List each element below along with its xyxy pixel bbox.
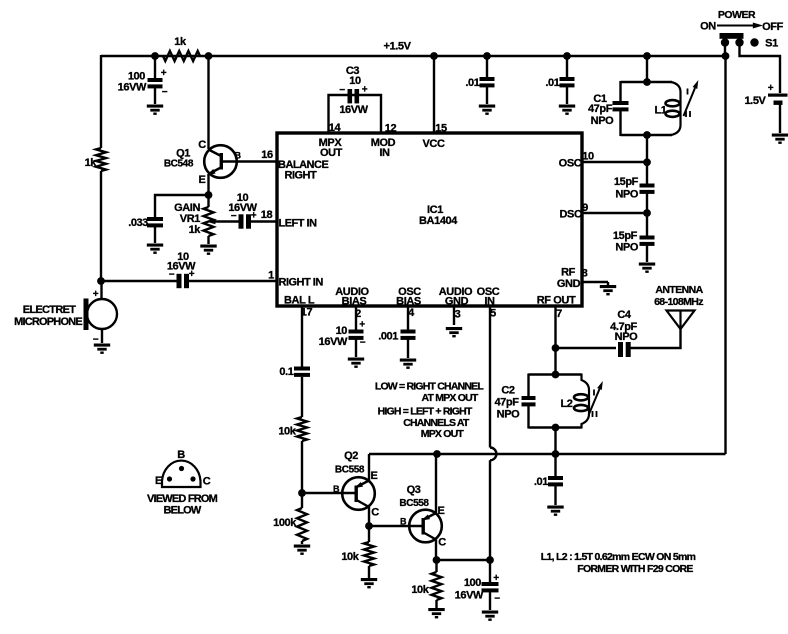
- svg-text:BIAS: BIAS: [396, 296, 421, 308]
- wire C3 loop: [329, 95, 382, 133]
- label pin8 RF GND: [557, 267, 588, 291]
- wire VR1 to ground: [207, 236, 209, 244]
- svg-text:10: 10: [582, 151, 594, 163]
- svg-text:E: E: [199, 174, 206, 186]
- svg-text:16VW: 16VW: [319, 336, 348, 348]
- svg-text:C4: C4: [617, 309, 632, 321]
- svg-text:15: 15: [435, 123, 447, 135]
- ground below .033: [147, 244, 163, 254]
- svg-text:.01: .01: [545, 77, 559, 89]
- wire .01 bottom stem: [554, 454, 556, 476]
- ground below microphone: [94, 344, 110, 354]
- svg-text:NPO: NPO: [615, 242, 638, 254]
- note L1 L2 former: [541, 551, 696, 575]
- svg-text:0.1: 0.1: [279, 366, 293, 378]
- ground pin8: [600, 285, 616, 295]
- resistor 10k q3: [411, 572, 441, 600]
- svg-text:AT MPX OUT: AT MPX OUT: [422, 392, 479, 404]
- wire Q2 base: [302, 492, 355, 494]
- svg-text:GND: GND: [445, 296, 469, 308]
- svg-text:BELOW: BELOW: [164, 505, 202, 517]
- adjustable core arrow L2: [589, 380, 605, 417]
- svg-text:+: +: [189, 269, 195, 280]
- svg-text:47pF: 47pF: [588, 103, 613, 115]
- svg-text:E: E: [155, 475, 162, 487]
- wire pin5 OSC IN upper: [489, 306, 491, 448]
- node junction tank2 top: [552, 371, 560, 379]
- capacitor 15pF NPO lower: [613, 230, 655, 254]
- wire tank1 drop: [646, 56, 648, 82]
- TO-92 package viewed from below: [147, 449, 218, 517]
- svg-text:LOW = RIGHT CHANNEL: LOW = RIGHT CHANNEL: [375, 381, 485, 393]
- svg-text:ANTENNA: ANTENNA: [655, 284, 703, 296]
- svg-text:100: 100: [464, 577, 481, 589]
- svg-text:VCC: VCC: [422, 138, 444, 150]
- ground below 100k: [294, 545, 310, 555]
- wire 100uF top stem: [154, 56, 156, 78]
- wire left rail lower: [100, 171, 102, 282]
- wire pin5 jump over emitter bus: [490, 448, 496, 461]
- svg-text:1k: 1k: [174, 36, 187, 48]
- wire Q3 10k: [435, 560, 437, 572]
- wire tank1 left upper: [619, 81, 621, 101]
- wire .01 B gnd stem: [566, 87, 568, 105]
- svg-text:C2: C2: [501, 385, 515, 397]
- label pin2 AUDIO BIAS: [335, 286, 369, 320]
- capacitor 10uF 16VW left-in: [228, 192, 257, 229]
- svg-text:14: 14: [329, 122, 342, 134]
- label pin18 LEFT IN: [261, 209, 317, 230]
- svg-text:BA1404: BA1404: [419, 215, 458, 227]
- wire Q2 collector to Q3 base: [369, 525, 422, 527]
- svg-text:FORMER WITH F29 CORE: FORMER WITH F29 CORE: [577, 563, 693, 575]
- svg-text:BC558: BC558: [399, 498, 429, 509]
- wire right-in right segment: [188, 280, 277, 282]
- svg-text:GND: GND: [557, 278, 581, 290]
- wire pin10 OSC: [582, 161, 647, 163]
- wire 15pF lower to ground: [646, 246, 648, 263]
- label pin9 DSC: [559, 202, 588, 221]
- label pin1 RIGHT IN: [268, 270, 323, 289]
- ground below VR1: [200, 245, 216, 255]
- svg-text:IN: IN: [484, 296, 495, 308]
- wire 0.1 to 10k: [301, 377, 303, 417]
- wire tank2 to bottom wire: [554, 428, 556, 455]
- svg-text:.01: .01: [534, 476, 548, 488]
- svg-text:OFF: OFF: [762, 21, 783, 33]
- wire VCC: [433, 56, 435, 133]
- resistor R 1k left rail: [85, 148, 106, 171]
- capacitor .01 A: [465, 77, 494, 89]
- svg-text:RIGHT IN: RIGHT IN: [279, 277, 324, 289]
- svg-text:−: −: [231, 211, 237, 222]
- note MPX OUT levels: [375, 381, 485, 441]
- switch S1 ON-OFF arrow: [700, 21, 783, 34]
- svg-text:+: +: [251, 211, 257, 222]
- ground below 100uF bottom: [482, 611, 498, 621]
- label +1.5V: [383, 41, 411, 53]
- node junction pin5 bottom: [486, 556, 494, 564]
- capacitor 0.1: [279, 366, 310, 378]
- svg-text:16VW: 16VW: [339, 104, 368, 116]
- IC IC1 BA1404 box: [277, 133, 582, 306]
- svg-text:Q2: Q2: [344, 450, 358, 462]
- wire left rail upper: [100, 55, 102, 148]
- svg-text:+: +: [161, 68, 167, 79]
- transistor Q3 BC558: [399, 484, 446, 549]
- wire pin4 cap to gnd: [407, 339, 409, 358]
- ground below pin4 cap: [400, 359, 416, 369]
- svg-text:BC558: BC558: [335, 465, 365, 476]
- svg-text:B: B: [400, 517, 407, 527]
- svg-text:1: 1: [268, 270, 274, 282]
- capacitor 15pF NPO upper: [614, 176, 655, 201]
- svg-text:B: B: [177, 449, 185, 461]
- node junction top rail A: [151, 52, 159, 60]
- svg-text:15pF: 15pF: [614, 176, 639, 188]
- svg-text:12: 12: [385, 123, 397, 135]
- svg-text:B: B: [333, 484, 340, 494]
- svg-text:OSC: OSC: [559, 158, 582, 170]
- node junction pin10: [643, 158, 651, 166]
- switch S1 bar: [720, 33, 744, 39]
- wire Q1 collector: [207, 56, 209, 149]
- wire switch left contact: [724, 44, 726, 56]
- resistor 100k: [273, 508, 307, 541]
- ground below 100uF: [147, 105, 163, 115]
- svg-text:10k: 10k: [411, 584, 429, 596]
- svg-text:+: +: [768, 83, 774, 94]
- electret microphone: [14, 289, 117, 346]
- wire pin4 down: [407, 306, 409, 330]
- svg-text:C: C: [203, 476, 211, 488]
- wiper arrow VR1: [206, 219, 239, 224]
- label pin7 RF OUT: [537, 295, 576, 321]
- svg-text:RF: RF: [561, 267, 576, 279]
- ground below .01 bottom: [547, 506, 563, 516]
- svg-text:16: 16: [261, 149, 273, 161]
- wire pin5 OSC IN lower: [489, 460, 491, 560]
- svg-text:C: C: [371, 507, 379, 519]
- svg-text:Q3: Q3: [407, 484, 421, 496]
- wire .01 A stem: [486, 56, 488, 77]
- label pin12 MOD IN: [371, 123, 397, 160]
- ground below pin2 cap: [348, 358, 364, 368]
- label pin15 VCC: [422, 123, 447, 151]
- wire +1.5V top rail: [101, 55, 726, 57]
- svg-text:L1: L1: [654, 105, 666, 117]
- label pin3 AUDIO GND: [439, 286, 473, 321]
- inductor L2: [560, 374, 589, 429]
- svg-text:1k: 1k: [189, 224, 202, 236]
- svg-text:16VW: 16VW: [455, 590, 484, 602]
- wire tank2 top: [529, 373, 582, 375]
- node junction Q3 collector: [433, 556, 441, 564]
- svg-text:E: E: [438, 505, 445, 517]
- svg-text:10: 10: [349, 75, 361, 87]
- wire Q1 emitter down: [207, 174, 209, 207]
- label pin10 OSC: [559, 151, 594, 170]
- switch S1 spare contact: [750, 38, 778, 50]
- wire right-in left segment: [101, 280, 177, 282]
- wire tank2 left upper: [527, 374, 529, 397]
- svg-text:NPO: NPO: [615, 189, 638, 201]
- wire pin8 stem: [607, 282, 609, 285]
- wire Q3 collector down: [435, 540, 437, 562]
- svg-text:L1, L2 : 1.5T 0.62mm ECW ON 5m: L1, L2 : 1.5T 0.62mm ECW ON 5mm: [541, 551, 696, 563]
- adjustable core arrow L1: [684, 79, 701, 117]
- svg-text:HIGH = LEFT + RIGHT: HIGH = LEFT + RIGHT: [378, 406, 473, 418]
- svg-text:ON: ON: [700, 21, 716, 33]
- svg-text:OUT: OUT: [320, 147, 343, 159]
- wire 100uF bottom stem: [154, 88, 156, 105]
- wire mic bottom: [101, 329, 103, 343]
- svg-text:NPO: NPO: [497, 409, 520, 421]
- node junction top rail B (Q1 collector): [205, 52, 213, 60]
- svg-text:BIAS: BIAS: [342, 296, 367, 308]
- svg-text:+: +: [93, 289, 99, 300]
- capacitor 100uF 16VW top-left: [118, 68, 168, 98]
- node junction tank1 top: [643, 78, 651, 86]
- transistor Q1 BC548: [164, 139, 242, 186]
- capacitor .01 B: [545, 77, 574, 89]
- node junction Q2 base: [298, 489, 306, 497]
- svg-text:BAL L: BAL L: [284, 295, 315, 307]
- capacitor .033: [128, 217, 163, 229]
- svg-text:−: −: [494, 594, 500, 605]
- ground below .01 A: [479, 105, 495, 115]
- wire .033 to ground: [154, 227, 156, 244]
- wire q3 10k to gnd: [435, 600, 437, 608]
- svg-text:NPO: NPO: [591, 115, 614, 127]
- wire Q3 emitter up: [435, 454, 437, 513]
- label pin17 BAL L: [284, 295, 315, 319]
- node junction tank1 bottom: [643, 131, 651, 139]
- capacitor C1 47pF NPO: [588, 93, 629, 127]
- svg-text:DSC: DSC: [559, 209, 581, 221]
- wire pin2 down: [355, 306, 357, 330]
- label POWER: [718, 9, 756, 21]
- wire Q2 emitter up: [368, 454, 370, 481]
- capacitor C4 4.7pF NPO: [610, 309, 638, 357]
- svg-text:1k: 1k: [85, 157, 98, 169]
- svg-text:+1.5V: +1.5V: [383, 41, 411, 53]
- node junction RF out: [552, 344, 560, 352]
- svg-text:L2: L2: [560, 398, 572, 410]
- capacitor C3 10uF 16VW: [339, 65, 368, 116]
- svg-text:+: +: [362, 85, 368, 96]
- wire pin9 DSC: [582, 212, 647, 214]
- ground below 15pF: [639, 263, 655, 273]
- node junction left rail / mic: [97, 277, 105, 285]
- resistor R 1k top: [163, 36, 200, 61]
- wire .01 A gnd stem: [486, 87, 488, 105]
- wire pin3 stub: [453, 306, 455, 325]
- svg-text:3: 3: [455, 309, 461, 321]
- svg-text:NPO: NPO: [615, 331, 638, 343]
- wire 10k to junction: [301, 441, 303, 508]
- svg-text:MICROPHONE: MICROPHONE: [14, 316, 82, 328]
- wire C4 to antenna: [628, 329, 681, 348]
- node junction pin9: [643, 209, 651, 217]
- svg-text:MPX OUT: MPX OUT: [421, 428, 465, 440]
- node junction Q2 collector: [365, 522, 373, 530]
- capacitor 10uF 16VW audio-bias: [319, 320, 366, 349]
- wire battery to ground: [779, 105, 781, 134]
- node junction Q1 emitter: [205, 191, 213, 199]
- wire tank2 bottom: [529, 426, 582, 428]
- capacitor 10uF 16VW right-in: [167, 251, 196, 288]
- svg-text:1.5V: 1.5V: [744, 95, 766, 107]
- wire switch to battery: [740, 44, 781, 93]
- wire Q1 base to pin16: [222, 160, 277, 162]
- label pin14 MPX OUT: [319, 122, 343, 159]
- wire right vertical rail: [724, 56, 726, 454]
- node junction VCC: [430, 52, 438, 60]
- ground below battery: [772, 134, 788, 144]
- label pin4 OSC BIAS: [396, 286, 421, 319]
- capacitor .01 bottom: [534, 476, 563, 488]
- wire tank2 left lower: [527, 406, 529, 429]
- ground pin3 AUDIO GND: [446, 327, 462, 337]
- wire tank1 top: [621, 81, 673, 83]
- svg-text:68-108MHz: 68-108MHz: [654, 296, 703, 308]
- label pin5 OSC IN: [477, 286, 500, 320]
- svg-text:10k: 10k: [278, 426, 296, 438]
- node junction .01 B: [563, 52, 571, 60]
- wire pin8 RF GND: [582, 281, 608, 283]
- wire mic top: [100, 281, 102, 300]
- svg-text:47pF: 47pF: [494, 397, 519, 409]
- wire 100uF bottom stem top: [489, 560, 491, 582]
- resistor 10k q2: [341, 542, 374, 566]
- wire 15pF upper to pin9: [646, 194, 648, 236]
- node junction rail right corner: [722, 52, 730, 60]
- svg-text:10k: 10k: [341, 551, 359, 563]
- svg-text:−: −: [162, 87, 168, 98]
- svg-text:100k: 100k: [273, 517, 297, 529]
- svg-text:−: −: [169, 270, 175, 281]
- wire q2 10k to gnd: [368, 566, 370, 578]
- svg-text:−: −: [339, 85, 345, 96]
- svg-text:+: +: [493, 573, 499, 584]
- wire emitter bus: [369, 453, 726, 455]
- svg-text:S1: S1: [765, 38, 778, 50]
- wire tank1 to pin10: [646, 135, 648, 184]
- wire Q2 collector down: [368, 507, 370, 527]
- svg-text:BC548: BC548: [164, 159, 194, 170]
- svg-text:.001: .001: [378, 331, 398, 343]
- svg-text:8: 8: [582, 268, 588, 280]
- transistor Q2 BC558: [333, 450, 379, 519]
- capacitor .001 osc-bias: [378, 330, 415, 343]
- antenna 68-108MHz: [654, 284, 704, 329]
- svg-text:7: 7: [556, 308, 562, 320]
- wire Q3 collector bus: [437, 559, 491, 561]
- wire 100uF bottom to gnd: [489, 592, 491, 611]
- svg-text:.033: .033: [128, 217, 148, 229]
- node junction Q3 emitter bus: [433, 450, 441, 458]
- resistor 10k bal: [278, 417, 307, 441]
- wire 10uF to pin18: [250, 220, 277, 222]
- wire .01 B stem: [566, 56, 568, 77]
- svg-text:18: 18: [261, 209, 273, 221]
- battery 1.5V: [744, 83, 787, 107]
- svg-text:ELECTRET: ELECTRET: [23, 304, 76, 316]
- ground below Q2 10k: [361, 578, 377, 588]
- wire tank1 bottom: [621, 134, 673, 136]
- svg-text:RIGHT: RIGHT: [285, 170, 318, 182]
- svg-text:IN: IN: [379, 147, 390, 159]
- svg-text:−: −: [360, 338, 366, 349]
- potentiometer VR1 GAIN 1k: [174, 202, 213, 236]
- svg-text:.01: .01: [465, 77, 479, 89]
- node junction tank1 rail: [643, 52, 651, 60]
- svg-text:POWER: POWER: [718, 9, 756, 21]
- inductor L1: [654, 82, 680, 135]
- capacitor C2 47pF NPO: [494, 385, 535, 421]
- svg-text:RF OUT: RF OUT: [537, 295, 576, 307]
- ground below .01 B: [559, 105, 575, 115]
- wire tank1 left lower: [619, 111, 621, 137]
- wire pin17 down: [301, 306, 303, 367]
- svg-text:+: +: [359, 320, 365, 331]
- node junction tank2 bottom: [552, 424, 560, 432]
- switch S1 contacts: [721, 38, 744, 46]
- wire Q2 10k: [368, 526, 370, 542]
- node junction .01 A: [483, 52, 491, 60]
- wire C4 left: [556, 347, 617, 349]
- wire pin7 RF OUT: [554, 306, 556, 375]
- svg-text:E: E: [371, 470, 378, 482]
- capacitor 100uF 16VW bottom: [455, 573, 501, 605]
- svg-text:15pF: 15pF: [613, 230, 638, 242]
- svg-text:LEFT IN: LEFT IN: [279, 218, 318, 230]
- svg-text:VIEWED FROM: VIEWED FROM: [147, 493, 218, 505]
- wire pin2 cap to gnd: [355, 339, 357, 357]
- wire .01 bottom gnd stem: [554, 486, 556, 506]
- ground below Q3 10k: [428, 608, 444, 618]
- svg-text:C: C: [438, 537, 446, 549]
- label pin16 BALANCE RIGHT: [261, 149, 328, 182]
- svg-text:B: B: [234, 151, 241, 161]
- wire 100k to ground: [301, 541, 303, 544]
- wire emitter junction to .033: [155, 195, 209, 217]
- node junction bottom wire C: [552, 450, 560, 458]
- svg-text:C: C: [198, 139, 206, 151]
- svg-text:16VW: 16VW: [118, 82, 147, 94]
